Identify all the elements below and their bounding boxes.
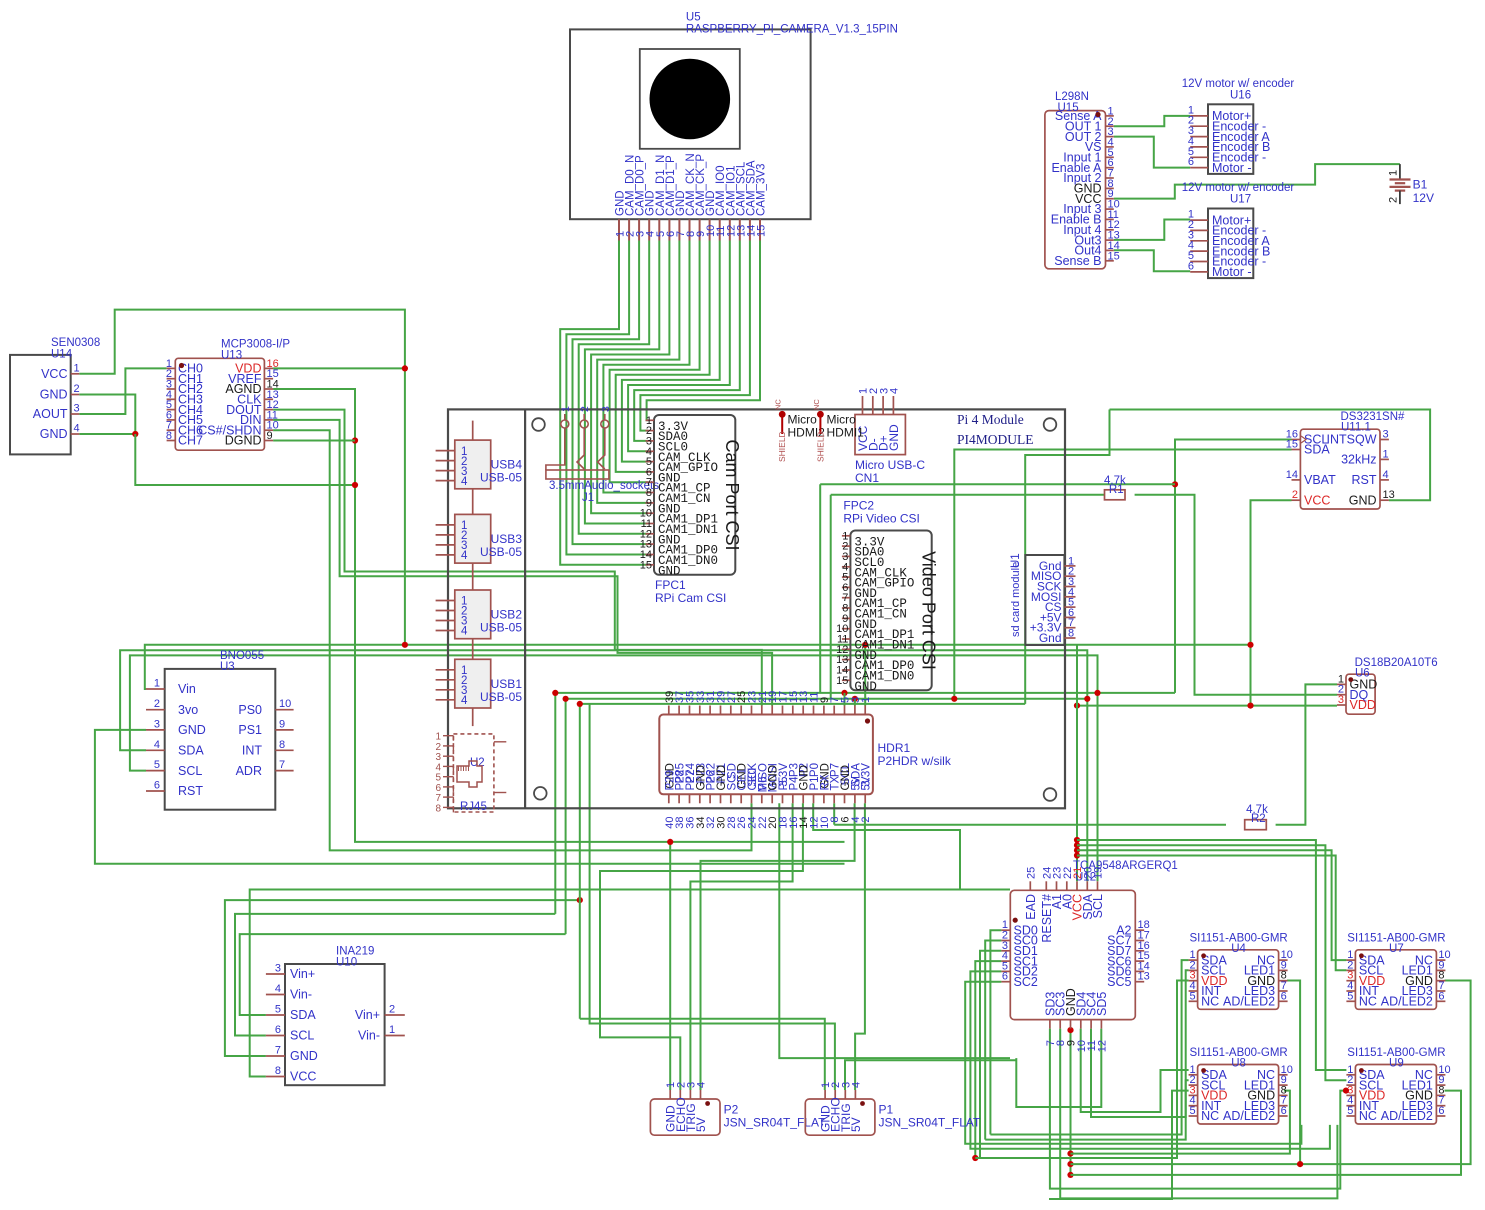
connector CN1 Micro USB-C (855, 388, 925, 485)
svg-text:U5: U5 (686, 12, 701, 24)
junction AGND-DGND (352, 437, 358, 443)
wire MCP DIN to HDR MOSI (273, 420, 772, 706)
svg-text:PS0: PS0 (238, 703, 262, 717)
svg-text:GND: GND (40, 388, 68, 402)
svg-text:4: 4 (74, 423, 80, 435)
wire HDR SDA riser (854, 699, 856, 706)
svg-text:NC: NC (1201, 1109, 1219, 1123)
svg-text:JSN_SR04T_FLAT: JSN_SR04T_FLAT (879, 1116, 981, 1130)
svg-text:5: 5 (1189, 990, 1195, 1002)
svg-text:Micro: Micro (827, 413, 857, 427)
connector USB4 USB-05 (436, 421, 523, 515)
mounting hole top-left (532, 418, 545, 431)
svg-text:NC: NC (774, 399, 783, 410)
svg-text:1: 1 (1388, 170, 1400, 176)
junction SDA-HDR (852, 696, 858, 702)
svg-text:P2: P2 (724, 1103, 739, 1117)
header HDR1 P2HDR w/silk 40-pin (659, 691, 952, 829)
svg-text:15: 15 (836, 675, 848, 687)
wire SI bus 1 (1077, 840, 1346, 1070)
wire TCA SC1 (975, 961, 1001, 1158)
svg-text:Vin+: Vin+ (290, 967, 315, 981)
svg-text:USB-05: USB-05 (480, 545, 522, 559)
svg-text:NC: NC (812, 399, 821, 410)
svg-text:U11.1: U11.1 (1341, 422, 1371, 434)
wire SCL band (555, 692, 1175, 694)
wire camera pin 12 to FPC1 pin 4 (628, 241, 730, 452)
svg-text:2: 2 (154, 698, 160, 710)
svg-text:INT: INT (242, 744, 263, 758)
wire TCA SD1 (980, 951, 1001, 1158)
connector FPC1 RPi Cam CSI (640, 415, 742, 605)
svg-text:RST: RST (1352, 473, 1377, 487)
svg-text:VCC: VCC (41, 367, 67, 381)
wire camera pin 11 to FPC1 pin 5 (622, 241, 720, 462)
wire L298N OUT1 to U16 Motor+ (1114, 116, 1190, 126)
wire 3.3V HDR riser (864, 645, 866, 706)
wire U14 GND pin4 (79, 433, 135, 435)
svg-text:4: 4 (154, 739, 160, 751)
wire U4 VDD feed (975, 981, 1188, 1159)
connector USB2 USB-05 (436, 590, 523, 659)
junction GND-U9 (1067, 1172, 1073, 1178)
wire MCP AGND down (273, 389, 844, 842)
junction AGND-GND rail (352, 482, 358, 488)
svg-text:4: 4 (1383, 469, 1389, 481)
svg-text:ADR: ADR (236, 764, 262, 778)
svg-text:6: 6 (1438, 1105, 1444, 1117)
svg-text:14: 14 (1286, 469, 1298, 481)
wire camera pin 2 to FPC1 pin 14 (566, 241, 648, 555)
junction U14 GND (132, 431, 138, 437)
wire R2 left line (834, 824, 1226, 826)
wire U14 GND pin2 (79, 395, 135, 435)
svg-text:8: 8 (1068, 628, 1074, 640)
svg-text:FPC1: FPC1 (655, 578, 686, 592)
junction TCA GND pin (1067, 1027, 1073, 1033)
svg-text:CAM_3V3: CAM_3V3 (756, 164, 768, 216)
svg-text:AD/LED2: AD/LED2 (1381, 995, 1433, 1009)
junction U4 GND join (1297, 1161, 1303, 1167)
svg-text:DGND: DGND (225, 434, 262, 448)
wire TCA SC3 (1060, 1029, 1337, 1199)
wire U4 VDD feed2 (975, 1157, 980, 1159)
svg-text:3: 3 (600, 406, 612, 412)
svg-text:3: 3 (1338, 694, 1344, 706)
svg-text:6: 6 (1281, 990, 1287, 1002)
svg-text:SHIELD: SHIELD (815, 431, 825, 462)
svg-text:RPi Video CSI: RPi Video CSI (843, 512, 919, 526)
wire R1 left vertical (830, 495, 832, 699)
svg-text:SDA: SDA (290, 1008, 316, 1022)
wire TCA SC4 (1091, 1029, 1189, 1117)
Pi 4 module outline PI4MODULE (448, 409, 1065, 808)
svg-text:RJ45: RJ45 (460, 801, 487, 813)
junction GND-U8 (1067, 1151, 1073, 1157)
wire U7 GND (1071, 981, 1471, 1165)
svg-text:6: 6 (1188, 260, 1194, 272)
wire MCP CS to HDR CE0 (273, 430, 751, 850)
svg-text:4: 4 (850, 1082, 862, 1088)
junction SDA-INA (563, 696, 569, 702)
wire L298N Out3 to U17 Motor+ (1114, 220, 1190, 240)
svg-text:15: 15 (1108, 250, 1120, 262)
junction 3V3-HDR (862, 642, 868, 648)
svg-text:U16: U16 (1230, 89, 1251, 101)
svg-text:4: 4 (461, 476, 468, 488)
power monitor U10 INA219 (266, 946, 405, 1086)
svg-text:Cam Port CSI: Cam Port CSI (722, 439, 742, 550)
svg-text:7: 7 (275, 1045, 281, 1057)
light sensor U8 SI1151-AB00-GMR (1189, 1047, 1293, 1124)
svg-text:SHIELD: SHIELD (777, 431, 787, 462)
ultrasonic sensor P2 JSN_SR04T_FLAT (650, 1082, 826, 1135)
svg-text:2: 2 (1292, 489, 1298, 501)
svg-text:PI4MODULE: PI4MODULE (957, 432, 1034, 447)
wire HDR RX line (813, 803, 960, 889)
svg-text:4: 4 (696, 1082, 708, 1088)
wire TCA SD3 (1050, 1029, 1347, 1189)
svg-text:8: 8 (166, 430, 172, 442)
connector J1 3.5mm audio sockets (546, 406, 659, 504)
svg-text:6: 6 (1002, 971, 1008, 983)
mounting hole bottom-right (1044, 788, 1057, 801)
junction VCC-3V3 line (1247, 642, 1253, 648)
svg-text:VCC: VCC (290, 1070, 316, 1084)
svg-text:AD/LED2: AD/LED2 (1381, 1109, 1433, 1123)
svg-text:1: 1 (860, 697, 872, 703)
svg-text:4: 4 (275, 983, 281, 995)
imu U3 BNO055 (146, 650, 294, 810)
svg-text:1: 1 (154, 678, 160, 690)
svg-text:4: 4 (461, 626, 468, 638)
rtc U11.1 DS3231SN# (1286, 411, 1405, 509)
svg-text:15: 15 (640, 559, 652, 571)
svg-text:Pi 4 Module: Pi 4 Module (957, 412, 1024, 427)
svg-text:SC5: SC5 (1107, 975, 1131, 989)
svg-text:U17: U17 (1230, 194, 1251, 206)
svg-text:3.5mmAudio_sockets: 3.5mmAudio_sockets (549, 480, 659, 492)
battery B1 12V (1388, 164, 1434, 205)
svg-text:USB-05: USB-05 (480, 471, 522, 485)
svg-text:SC2: SC2 (1014, 975, 1038, 989)
wire camera pin 14 to FPC1 pin 2 (640, 241, 750, 431)
svg-text:3: 3 (74, 403, 80, 415)
wire MCP DGND (273, 440, 355, 442)
wire R2 left riser (833, 803, 835, 824)
svg-text:RPi Cam CSI: RPi Cam CSI (655, 591, 726, 605)
wire INA VCC up (250, 890, 1010, 1077)
junction 3V3 at MCP VDD (402, 365, 408, 371)
junction P2 GND (667, 839, 673, 845)
svg-text:HDMI1: HDMI1 (827, 426, 865, 440)
temperature sensor U6 DS18B20A10T6 (1337, 657, 1438, 714)
wire P1 5V (855, 803, 865, 1090)
wire P2 TRIG (690, 803, 792, 1090)
wire HDR P1 line (779, 803, 1010, 1058)
svg-text:Motor -: Motor - (1212, 161, 1252, 175)
junction GND bus (577, 897, 583, 903)
wire DS3231 top GND (1110, 410, 1431, 501)
svg-text:3: 3 (1383, 429, 1389, 441)
svg-text:3vo: 3vo (178, 703, 198, 717)
svg-text:NC: NC (1359, 995, 1377, 1009)
wire SI bus 4 (1077, 856, 1346, 971)
junction GND-U7 (1067, 1161, 1073, 1167)
svg-text:Micro USB-C: Micro USB-C (855, 458, 925, 472)
wire INA SCL up (235, 914, 555, 1036)
resistor R1 4.7k (1104, 475, 1126, 500)
wire U4 SDA feed (990, 960, 1188, 1134)
svg-text:13: 13 (1383, 489, 1395, 501)
svg-text:Video Port CSI: Video Port CSI (918, 551, 938, 670)
wire TCA SD0 (990, 930, 1001, 1134)
junction VCC band4 (1074, 852, 1080, 858)
svg-text:1: 1 (1383, 448, 1389, 460)
connector Micro HDMI1 (812, 399, 864, 462)
svg-text:4: 4 (889, 388, 901, 394)
svg-text:Vin+: Vin+ (355, 1008, 380, 1022)
wire camera pin 15 to FPC1 pin 1 (647, 241, 760, 421)
wire camera pin 8 to FPC1 pin 8 (603, 241, 689, 493)
svg-text:Vin-: Vin- (358, 1029, 380, 1043)
wire U9 GND (1071, 1091, 1462, 1175)
svg-text:VDD: VDD (1350, 698, 1376, 712)
wire U4 GND (1287, 981, 1300, 1165)
wire P2 GND (669, 842, 671, 1090)
wire camera pin 5 to FPC1 pin 11 (585, 241, 659, 524)
svg-text:U10: U10 (336, 957, 357, 969)
svg-text:7: 7 (279, 759, 285, 771)
svg-text:15: 15 (756, 225, 768, 237)
svg-text:U3: U3 (220, 661, 235, 673)
svg-text:USB2: USB2 (491, 608, 523, 622)
svg-text:2: 2 (860, 817, 872, 823)
wire mid loop (820, 483, 1175, 485)
light sensor U4 SI1151-AB00-GMR (1189, 932, 1293, 1009)
svg-text:HDR1: HDR1 (878, 741, 911, 755)
svg-text:USB3: USB3 (491, 532, 523, 546)
wire camera pin 10 to FPC1 pin 6 (616, 241, 710, 472)
junction SCL-TCA (1094, 690, 1100, 696)
svg-text:RASPBERRY_PI_CAMERA_V1.3_15PIN: RASPBERRY_PI_CAMERA_V1.3_15PIN (686, 24, 898, 36)
svg-text:PS1: PS1 (238, 723, 262, 737)
svg-text:P2HDR w/silk: P2HDR w/silk (878, 754, 952, 768)
svg-text:NC: NC (1201, 995, 1219, 1009)
junction SDA-TCA (1084, 696, 1090, 702)
wire U8 GND (1071, 1091, 1290, 1154)
svg-text:INTSQW: INTSQW (1327, 433, 1377, 447)
svg-text:5: 5 (1189, 1105, 1195, 1117)
wire P2 ECHO (600, 803, 803, 1090)
svg-text:9: 9 (279, 718, 285, 730)
junction VCC band3 (1074, 847, 1080, 853)
wire GND rail down-right (135, 434, 355, 485)
wire DS3231 top GND left (1025, 410, 1109, 704)
svg-text:12V motor w/ encoder: 12V motor w/ encoder (1182, 182, 1295, 194)
svg-text:USB-05: USB-05 (480, 621, 522, 635)
svg-text:SEN0308: SEN0308 (51, 337, 100, 349)
svg-text:U7: U7 (1389, 943, 1404, 955)
wire INA SDA up (240, 934, 566, 1015)
mounting hole bottom-left (534, 787, 547, 800)
svg-text:GND: GND (290, 1049, 318, 1063)
svg-text:12: 12 (1096, 1040, 1108, 1052)
svg-text:U8: U8 (1231, 1058, 1246, 1070)
svg-text:U13: U13 (221, 350, 242, 362)
svg-text:6: 6 (154, 780, 160, 792)
wire MCP3008 VDD (273, 367, 405, 369)
light sensor U7 SI1151-AB00-GMR (1346, 932, 1450, 1009)
svg-text:Motor -: Motor - (1212, 265, 1252, 279)
wire P1 ECHO (590, 704, 835, 1090)
wire P1 GND (580, 1019, 825, 1090)
wire BNO Vin to 3V3 line (145, 645, 1251, 689)
svg-text:6: 6 (275, 1024, 281, 1036)
svg-text:15: 15 (1286, 439, 1298, 451)
svg-text:10: 10 (279, 698, 291, 710)
junction GND-HDR (577, 701, 583, 707)
wire INA GND up (225, 900, 580, 1056)
wire U8 VDD feed (1049, 1091, 1189, 1199)
svg-text:2: 2 (579, 406, 591, 412)
sensor U14 SEN0308 (10, 337, 100, 454)
svg-text:USB1: USB1 (491, 677, 523, 691)
wire TCA SD2 (970, 971, 1330, 1148)
svg-text:19: 19 (1093, 867, 1105, 879)
junction VDD-U6 left (1074, 703, 1080, 709)
svg-text:USB-05: USB-05 (480, 690, 522, 704)
wire 3V3 rail U14 VCC to MCP VDD to BNO Vin (79, 310, 405, 645)
svg-text:GND: GND (854, 680, 877, 694)
junction SCL-INA (552, 690, 558, 696)
svg-text:AOUT: AOUT (33, 407, 68, 421)
svg-text:6: 6 (1281, 1105, 1287, 1117)
wire U6 GND to R2 (1276, 684, 1337, 824)
svg-text:U4: U4 (1231, 943, 1246, 955)
svg-text:Gnd: Gnd (1039, 631, 1062, 645)
wire P2 5V (701, 803, 855, 1090)
wire SI bus 3 (1077, 850, 1346, 960)
svg-text:J1: J1 (582, 492, 594, 504)
svg-text:CN1: CN1 (855, 471, 879, 485)
svg-text:6: 6 (1438, 990, 1444, 1002)
svg-text:2: 2 (74, 383, 80, 395)
connector FPC2 RPi Video CSI (836, 499, 938, 694)
svg-text:Micro: Micro (788, 413, 818, 427)
svg-text:AD/LED2: AD/LED2 (1223, 995, 1275, 1009)
svg-text:1: 1 (74, 362, 80, 374)
junction VCC band1 (1074, 837, 1080, 843)
svg-text:3: 3 (275, 963, 281, 975)
svg-text:5: 5 (154, 759, 160, 771)
svg-text:Vin: Vin (178, 682, 196, 696)
svg-text:EAD: EAD (1024, 894, 1038, 920)
svg-text:32kHz: 32kHz (1341, 453, 1376, 467)
svg-text:13: 13 (1138, 971, 1150, 983)
svg-text:3: 3 (154, 718, 160, 730)
svg-text:12V: 12V (1413, 191, 1434, 205)
svg-text:sd card module: sd card module (1010, 562, 1022, 637)
wire P1 TRIG (845, 1060, 1016, 1090)
svg-text:Vin-: Vin- (290, 988, 312, 1002)
svg-text:8: 8 (435, 803, 441, 814)
wire mid loop vertical (819, 484, 821, 693)
svg-text:5: 5 (275, 1004, 281, 1016)
connector U16 12V motor w/ encoder (1182, 78, 1295, 175)
svg-text:Sense B: Sense B (1054, 254, 1101, 268)
wire L298N OUT2 to U16 Motor- (1114, 137, 1190, 168)
svg-text:SCL: SCL (1091, 894, 1105, 918)
svg-text:5: 5 (1347, 990, 1353, 1002)
connector Micro HDMI2 (774, 399, 825, 462)
svg-text:U14: U14 (51, 349, 73, 361)
wire SCL bus vertical (554, 693, 556, 914)
svg-text:SCL: SCL (178, 764, 202, 778)
wire HDR SCL riser (844, 693, 846, 706)
i2c multiplexer U12 TCA9548ARGERQ1 (1001, 860, 1177, 1052)
svg-text:USB4: USB4 (491, 458, 523, 472)
wire TCA SC2 (965, 982, 1301, 1144)
svg-text:9: 9 (267, 430, 273, 442)
wire U6 VDD line (1077, 705, 1337, 707)
svg-text:P1: P1 (879, 1103, 894, 1117)
wire camera pin 7 to FPC1 pin 9 (597, 241, 679, 503)
svg-text:8: 8 (279, 739, 285, 751)
svg-text:AD/LED2: AD/LED2 (1223, 1109, 1275, 1123)
svg-text:4: 4 (461, 550, 468, 562)
svg-text:R1: R1 (1109, 484, 1124, 496)
wire BNO SCL line (130, 655, 1098, 881)
svg-text:12V motor w/ encoder: 12V motor w/ encoder (1182, 78, 1295, 90)
junction SCL-HDR (841, 690, 847, 696)
wire U4 SCL feed (985, 970, 1188, 1139)
svg-text:JSN_SR04T_FLAT: JSN_SR04T_FLAT (724, 1116, 826, 1130)
svg-text:SD5: SD5 (1095, 992, 1109, 1016)
motor driver U15 L298N (1045, 91, 1120, 269)
svg-text:SDA: SDA (178, 744, 204, 758)
svg-text:2: 2 (389, 1004, 395, 1016)
connector U17 12V motor w/ encoder (1182, 182, 1295, 279)
wire camera pin 4 to FPC1 pin 12 (579, 241, 650, 534)
svg-text:4: 4 (461, 695, 468, 707)
svg-text:5V: 5V (849, 1117, 863, 1132)
wire R1 right to DQ (1135, 495, 1337, 695)
wire BNO SDA line (120, 650, 1087, 881)
wire MCP DOUT to HDR MISO (273, 410, 762, 706)
camera module U5 RASPBERRY_PI_CAMERA_V1.3_15PIN (570, 12, 898, 241)
wire TCA SC0 (985, 941, 1001, 1140)
wire camera pin 3 to FPC1 pin 13 (573, 241, 649, 545)
wire camera pin 1 to FPC1 pin 15 (560, 241, 648, 565)
junction U9 VDD (1343, 1088, 1349, 1094)
svg-text:5V: 5V (694, 1117, 708, 1132)
connector U2 RJ45 (435, 732, 506, 815)
wire TCA GND down (1070, 1029, 1072, 1175)
svg-text:RST: RST (178, 784, 203, 798)
wire DS3231 SDA feed (954, 450, 1291, 699)
svg-text:NC: NC (1359, 1109, 1377, 1123)
wire BNO GND down (95, 730, 845, 864)
svg-text:6: 6 (1188, 156, 1194, 168)
resistor R2 4.7k (1245, 804, 1268, 830)
wire GND bus vertical (579, 704, 581, 1019)
svg-text:8: 8 (275, 1065, 281, 1077)
svg-text:FPC2: FPC2 (843, 499, 874, 513)
svg-text:VBAT: VBAT (1304, 473, 1336, 487)
svg-text:5: 5 (1347, 1105, 1353, 1117)
wire SI bus 2 (1077, 845, 1346, 1080)
